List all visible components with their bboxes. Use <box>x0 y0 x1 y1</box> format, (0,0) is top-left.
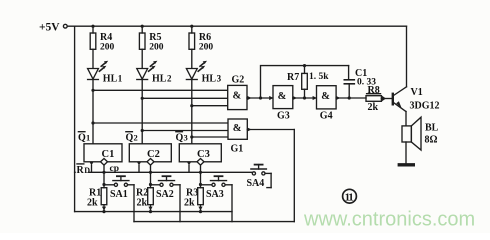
resistor R6 <box>189 26 213 68</box>
node top rail junction col3 <box>190 25 193 28</box>
svg-text:1. 5k: 1. 5k <box>309 72 329 82</box>
nand gate G4 <box>313 86 337 122</box>
wire emitter down to speaker <box>405 112 407 126</box>
svg-text:2k: 2k <box>87 198 98 209</box>
svg-text:2k: 2k <box>368 102 379 113</box>
svg-text:R8: R8 <box>368 85 380 96</box>
node col1 tap to G1 <box>91 121 94 124</box>
svg-text:200: 200 <box>100 43 115 53</box>
svg-text:Q: Q <box>126 133 134 144</box>
svg-text:1: 1 <box>118 73 123 83</box>
pushbutton SA1 <box>104 176 134 221</box>
pushbutton SA4 <box>247 165 272 189</box>
svg-text:&: & <box>233 123 242 134</box>
svg-text:www.cntronics.com: www.cntronics.com <box>303 209 475 231</box>
wire bottom rail1 <box>75 211 232 213</box>
svg-text:2k: 2k <box>184 198 195 209</box>
svg-text:Q: Q <box>78 133 86 144</box>
svg-text:G3: G3 <box>277 111 290 122</box>
capacitor C1 <box>344 66 376 98</box>
svg-text:R7: R7 <box>287 72 299 83</box>
wire col3 to G2 input3 <box>192 105 228 107</box>
svg-text:2: 2 <box>134 133 138 143</box>
svg-text:2k: 2k <box>137 198 148 209</box>
nand gate G2 <box>228 75 247 110</box>
svg-text:200: 200 <box>199 43 214 53</box>
resistor R8 <box>366 85 392 113</box>
node col2 tap to G2 <box>141 97 144 100</box>
nand gate G1 <box>228 119 247 155</box>
wire col1 to G1 input1 <box>93 122 228 124</box>
LED HL1 <box>88 61 123 144</box>
resistor R4 <box>90 26 114 68</box>
pushbutton SA2 <box>151 176 181 221</box>
resistor R3 <box>184 183 203 213</box>
svg-text:SA1: SA1 <box>110 189 128 200</box>
svg-text:cp: cp <box>110 164 120 174</box>
ground <box>399 163 413 166</box>
svg-text:HL: HL <box>202 73 217 84</box>
svg-text:C2: C2 <box>147 149 160 160</box>
transistor V1 <box>393 87 440 112</box>
flip-flop C2 <box>126 132 172 188</box>
svg-text:3: 3 <box>184 133 188 143</box>
svg-text:3: 3 <box>217 73 222 83</box>
svg-text:C3: C3 <box>197 149 210 160</box>
svg-text:V1: V1 <box>411 87 423 98</box>
svg-text:SA3: SA3 <box>206 189 224 200</box>
wire G2 output <box>247 96 273 100</box>
svg-text:R6: R6 <box>199 32 211 43</box>
svg-text:R5: R5 <box>149 32 161 43</box>
svg-text:&: & <box>321 91 330 102</box>
node circled figure number 11 <box>343 189 357 203</box>
svg-text:200: 200 <box>149 43 164 53</box>
svg-text:3DG12: 3DG12 <box>410 101 440 112</box>
wire collector to top rail <box>406 26 408 87</box>
svg-text:R4: R4 <box>100 32 112 43</box>
wire G4 output <box>336 96 366 100</box>
node col3 tap to G2 <box>190 104 193 107</box>
wire bottom rail2 <box>134 221 294 223</box>
wire feedback from G2 output up to C1 <box>261 66 349 98</box>
LED HL2 <box>137 61 172 144</box>
flip-flop C3 <box>176 132 222 188</box>
wire RD-cp bus <box>75 171 253 174</box>
wire left rail <box>74 26 76 211</box>
node col2 tap to G1 <box>141 129 144 132</box>
svg-text:D: D <box>84 166 90 175</box>
svg-text:BL: BL <box>425 123 439 134</box>
wire col1 to G2 input1 <box>93 89 228 91</box>
node col1 tap to G2 <box>91 89 94 92</box>
svg-text:G4: G4 <box>320 110 333 121</box>
resistor R2 <box>136 183 153 213</box>
wire G1 output feedback <box>247 127 294 221</box>
wire col2 to G1 input2 <box>142 130 228 132</box>
svg-text:HL: HL <box>152 73 167 84</box>
node RD label <box>76 164 90 176</box>
wire col2 to G2 input2 <box>142 97 228 99</box>
node top rail junction col2 <box>141 25 144 28</box>
svg-text:G2: G2 <box>232 75 245 86</box>
wire col3 to G1 input3 <box>192 136 228 138</box>
svg-text:+5V: +5V <box>39 22 60 34</box>
svg-text:11: 11 <box>345 192 354 204</box>
resistor R7 <box>287 64 329 98</box>
LED HL3 <box>186 61 221 144</box>
svg-text:SA2: SA2 <box>156 189 174 200</box>
svg-text:Q: Q <box>176 133 184 144</box>
pushbutton SA3 <box>201 176 233 221</box>
wire top +5V rail <box>67 25 406 27</box>
svg-text:SA4: SA4 <box>247 178 265 189</box>
resistor R5 <box>139 26 163 68</box>
svg-text:&: & <box>278 91 287 102</box>
power terminal +5V <box>39 22 67 34</box>
flip-flop C1 <box>78 132 122 188</box>
wire G3 output to G4 input <box>293 96 317 100</box>
node col3 tap to G1 <box>190 135 193 138</box>
svg-text:2: 2 <box>167 73 172 83</box>
svg-text:&: & <box>233 91 242 102</box>
wire speaker to ground <box>405 142 407 163</box>
svg-text:G1: G1 <box>231 144 244 155</box>
nand gate G3 <box>269 86 293 122</box>
svg-text:1: 1 <box>86 133 90 143</box>
speaker BL <box>402 117 439 150</box>
resistor R1 <box>87 183 107 213</box>
svg-text:HL: HL <box>103 73 118 84</box>
node top rail junction col1 <box>91 25 94 28</box>
svg-text:8Ω: 8Ω <box>425 135 438 146</box>
